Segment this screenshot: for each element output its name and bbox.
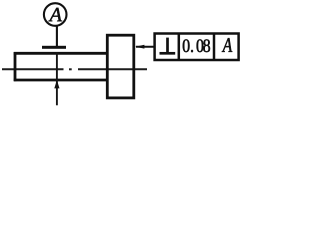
datum leader line	[56, 26, 58, 48]
datum circle	[44, 3, 67, 26]
centerline (shaft axis, dash-dot)	[2, 68, 147, 70]
datum reference letter A	[222, 38, 232, 52]
dimension arrowhead	[54, 80, 59, 88]
leader line to feature control frame	[136, 46, 155, 48]
datum target bar	[42, 46, 66, 49]
dimension line	[56, 52, 58, 105]
feature control frame box	[155, 34, 239, 61]
shaft outline	[14, 52, 108, 81]
flange outline	[107, 35, 134, 98]
perpendicularity symbol	[160, 38, 176, 54]
datum letter A	[49, 8, 62, 21]
leader arrowhead	[135, 45, 144, 49]
tolerance value 0.08	[183, 39, 210, 52]
